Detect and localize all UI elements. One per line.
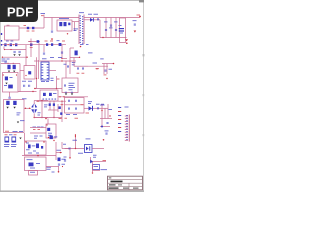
red dot right col [101,110,102,111]
node dots Q2 [48,137,49,138]
node dots y88.5 [34,88,35,89]
red marks filter sides [61,103,64,106]
TL431 U4 symbol [90,160,93,164]
right border tick 1 [143,54,145,56]
junction dot x102 y126 [101,126,103,128]
ground right of cap bank [125,39,128,41]
capacitor C12 [5,61,7,63]
wire y152.5 short [56,152,62,154]
wire bridge bottom [33,114,35,118]
varistor RV1 body [32,27,34,29]
blob in small box [47,128,50,131]
connector net labels column [118,107,121,132]
cluster x32-44 y126-133 [33,126,37,129]
wire y127.5 x30-46 [30,127,46,129]
vertical x58 [57,104,59,112]
capacitor C5 [97,18,99,20]
blob x48-52 y103-107 [49,103,51,106]
resistor R1 [59,22,62,26]
blob in box A [28,71,31,74]
wire filter to Q1 [84,107,92,109]
labels x38-40 y112-116 [38,111,41,114]
component row y43-47 pair 1 [4,43,6,46]
net endpoint marker top-right [139,16,141,18]
node dots above C14 C15 [7,63,8,64]
bus blob L2 [59,43,62,46]
label y150 [57,149,62,152]
wire drop x74 [74,22,76,31]
vertical x105 [104,108,106,118]
vertical x70 below rail [69,149,71,158]
wire mid filter [65,104,85,106]
cluster x56-66 y156-170 [58,158,61,162]
labels above y88.5 wire [51,77,54,80]
vertical x38.5 y60-79 [38,60,40,79]
labels right of Q1 [96,103,100,106]
bus blob R4 [51,43,53,46]
label cluster y58-64 [2,58,6,61]
label LF1 [17,112,21,115]
page right border [143,0,145,191]
wire y91.5 x18-36 [18,91,37,93]
vertical x54 [53,101,55,117]
IC U3 in standby lower [27,158,33,161]
bus blob R3 [46,43,48,46]
small box x46-56 y124-138 [46,124,56,138]
component row pair 2 [10,43,12,46]
labels below U1 [41,80,45,83]
title block row line 2 [108,182,143,184]
relay K1 contact block [5,137,10,143]
standby box upper [25,141,47,155]
red mark right of PC1 row [103,139,105,141]
transformer T1 [79,15,84,45]
capacitor C20 [75,100,77,102]
label right of BD1 [44,104,48,107]
capacitor C18 [104,70,106,72]
labels around bus blob [29,40,32,43]
wire TL431 bottom [93,170,101,172]
cluster in box upper [5,77,8,81]
fuse wire y28 [19,27,44,29]
node dots y117.5 [41,117,42,118]
blue mark x52 y172 [52,171,55,174]
red mark on rail right [96,67,100,70]
right column box A [24,66,35,80]
vertical x39 down [38,43,40,60]
labels near y153 [28,152,32,155]
label +B net [93,62,98,65]
page corner top-right [139,0,144,2]
capacitor CX1 [37,40,40,43]
label below left [20,119,25,122]
vertical x31 down [30,39,32,58]
wire rail y61 [34,60,76,62]
title block row line 3 [108,185,143,187]
labels around fuse [24,24,27,27]
node dot right col [109,115,110,116]
vertical x62 y44-58 [61,45,63,58]
vertical x102 [101,104,103,127]
wire y70.5 x20-24 [20,70,24,72]
wire y126.5 [100,126,110,128]
node dot bridge top [41,100,42,101]
extra cluster parts x62-68 [64,156,67,159]
label right of T1 bottom [80,43,84,46]
ground dot below T1 [80,46,82,48]
node dot x46 y118.5 [45,118,47,120]
label C10 [133,19,137,22]
red marks row y118 right [59,117,62,120]
label U2 [4,84,7,87]
node dot rail [102,37,103,38]
labels D2 C5 [88,13,92,16]
vertical x44 y44-52 [43,45,45,52]
label x73 y140 [73,139,78,142]
labels below relays [4,143,10,146]
vertical x20 y64-92 [19,64,21,93]
vertical x104 [103,64,105,75]
capacitor CY2 [13,101,16,105]
marks in small box [48,132,52,135]
vertical x56 y142-160 [55,142,57,160]
node dots on bus [8,44,9,45]
title block vertical divider [128,183,130,190]
capacitor C21 [68,108,70,110]
component row pair 3 [15,43,17,46]
ground CY1 [6,107,8,109]
vertical x42 AC [41,101,43,118]
cluster x63-70 y64-70 [67,65,69,67]
ground below C14 [8,71,10,73]
snubber box [57,20,72,31]
wire y118.5 [100,118,112,120]
blob x52-56 y103-107 [53,103,55,106]
label BD1 [22,97,27,100]
vertical x70 y61-74 [69,61,71,75]
label in feedback box [53,92,57,95]
capacitor C16 [9,97,11,99]
right border tick 2 [143,94,145,96]
diode D1 [68,23,70,26]
node dot y152 [60,152,62,154]
label x78 y153 [78,152,83,155]
wire y57.2 [2,56,28,58]
node dot x58 bottom [58,171,60,173]
feedback blob 1 [43,93,46,96]
TL431 detail box [93,165,100,170]
IC U2 body in box [8,85,13,89]
node dots y101 [37,101,38,102]
vertical x36 y57-79 [36,57,38,88]
transistor Q2 cluster [50,136,53,140]
wire bridge top [34,100,48,102]
snubber box 2 x62-78 y78-92.5 [62,78,78,93]
wire AC to bridge [24,107,31,109]
bus wire y44.7 [2,44,66,46]
ground below C4 [51,39,53,41]
vertical x107 [106,64,108,75]
title block title text [111,181,123,183]
wire y57.5 x70-80 [70,57,80,59]
label above PC1 [86,138,91,141]
label right of U3 [47,166,52,169]
node dot RM [113,63,115,65]
input filter box L1 [5,26,20,40]
extra parts standby upper [41,146,43,149]
ground below box2 left [65,93,67,95]
wire y41.5 stub [28,41,40,43]
MOSFET Q3 body [75,51,78,56]
ground CY4 [18,54,20,56]
left edge marks [1,33,2,35]
label L1 top [7,24,10,27]
capacitor C19 [68,100,70,102]
capacitor C4 [51,31,53,33]
wire y96.8 x58-88 [58,96,88,98]
top rail right of transformer [84,17,140,19]
connector CN1 [125,115,130,142]
node dot x75 [75,148,76,149]
feedback box x40-58 y90-101 [40,90,58,101]
electrolytic box C9 [120,18,126,43]
vertical x56 y76-88 [56,76,58,89]
bridge rectifier BD1 [31,104,37,114]
vertical x74 y58-66 [73,58,75,67]
node dot y91.5 [32,91,33,92]
transistor Q1 [89,106,93,110]
labels cap bank [104,21,108,24]
output rail bottom [100,37,127,39]
capacitor C10 [134,24,136,26]
node dot y61 [61,60,62,61]
wire y88.5 x34-62 [34,88,62,90]
node dot y155 [37,155,39,157]
labels above bus right [45,40,48,43]
opto rail wire [65,148,85,150]
wire stub x44 [43,15,45,29]
node dots AC [25,108,26,109]
red mark RM [104,74,107,77]
caps cluster x22-31 y83-89 [23,85,25,87]
blob x58-62 y106-110 [58,106,60,109]
label RM1 [100,58,104,61]
resistor R2 [64,22,67,26]
labels x34-44 y135-140 [34,135,38,138]
stub above TL431 [90,157,92,162]
optocoupler PC1 [85,145,93,153]
wire drop x52 [51,18,53,31]
text lines in box2 [69,82,75,85]
labels TL431 top [93,154,97,157]
wire y58.5 x62-66 [62,58,67,60]
labels above relays [5,133,8,136]
capacitor C6 [105,29,107,31]
capacitor C9 plates [119,28,124,29]
svg-text:PDF: PDF [7,4,33,19]
cluster x60-64 y50-56 [61,52,63,54]
secondary wire y19.8 [84,19,100,21]
label +B2 net [88,52,93,55]
labels right of U1 y57 [50,56,54,59]
section box left x2-18 [3,73,19,93]
standby box lower [25,157,47,171]
ground LF1 [17,122,19,124]
label +5V [101,168,108,171]
wire y66.2 x74-86 [74,65,88,67]
capacitor CY1 [6,101,9,105]
capacitor C23 on rail [69,147,71,149]
blue marks above grounds [65,91,67,94]
ground in box [5,83,7,85]
top rail net AC-L [44,17,79,19]
capacitor C7 [110,25,112,27]
labels right col [22,80,26,83]
vertical x24 bottom [24,133,26,141]
title block frame [108,176,143,190]
wire PC1 right [92,148,104,150]
vertical x26 y45-66 [25,45,27,66]
red mark below Q1 [86,112,90,115]
label x63 y144 [63,143,66,146]
transformer bottom stub wires [70,47,74,49]
wire TL431 rail [90,161,106,163]
ground CY3 [13,54,15,56]
PDF badge [0,0,38,22]
label near rail start [41,12,46,15]
node dots y49.5 [4,49,5,50]
page left border [0,0,1,191]
page bottom border [0,190,144,192]
electrolytic C15 body [13,65,16,69]
vertical x50 [49,101,51,110]
electrolytic C14 body [7,65,10,69]
capacitor C22 [75,108,77,110]
AC input box [4,100,25,133]
labels AC bottom [5,130,9,133]
blob x60-64 y112-116 [60,112,62,115]
fuse F1 body [27,27,29,29]
vertical x48 y118-124 [47,119,49,125]
capacitor in box2 [64,84,66,86]
node dot in box A [25,75,26,76]
node dot x36 y78 [36,78,37,79]
vertical x75 above rail [75,137,77,149]
vertical x62 y142-152 [61,142,63,149]
node dots y57.2 [2,57,3,58]
capacitor CY4 [19,51,21,53]
dashes in standby lower [36,162,40,165]
ground below box2 right [71,93,73,95]
node dot bridge bottom [34,117,35,118]
components standby upper [28,145,31,149]
secondary caps pair CP1 [77,67,79,69]
label in small box 2 [30,171,35,174]
ground below C10 [134,31,137,33]
U1 pins [42,64,49,79]
node dot below C9 [126,42,128,44]
title block small text row 2 [109,187,119,188]
wire y110 x48-58 [48,109,58,111]
cluster right col caps [106,122,108,124]
title block small text row 1 [109,184,116,185]
diode D2 [90,18,93,22]
vertical x92 TL431 [92,162,94,172]
node dot x70 bottom [69,157,71,159]
red dash x75 y134 [75,134,76,137]
wire y148.5 to opto [62,148,70,150]
label above snubber [59,17,69,20]
wire y63.5 x1-20 [1,63,20,65]
wire drop x100 [99,20,101,38]
page top border [0,0,144,2]
label x72 y62-66 [72,61,76,64]
capacitor C4b [43,53,45,55]
ground below C15 [13,71,15,73]
label Q1 [88,100,92,103]
label T1 [79,11,84,14]
node dots y96.8 [59,96,60,97]
node dot RM bottom [106,78,107,79]
capacitor C24 [97,107,99,109]
wire rail y66.2 right [88,65,108,67]
ground CY2 [13,107,15,109]
node dots standby [25,141,26,142]
node dots box corners [3,74,4,75]
wire RM y63.5 [102,63,114,65]
ground right of relays [19,138,21,140]
wire y166.5 x46-58 [46,166,59,168]
wire y155.5 [22,155,56,157]
capacitor CY3 [14,51,16,53]
vertical x4 y47-49 [3,47,5,50]
node dot small box [46,124,47,125]
labels above row [6,40,9,43]
vertical x66 y61-78 [65,61,67,79]
wire drop x116 [115,18,117,38]
vertical x108 [107,104,109,119]
wire y133 x30-46 [30,132,46,134]
vertical x62 [61,101,63,122]
vertical x58 y166-171 [58,166,60,172]
labels below filter [66,113,70,116]
relay K2 contact block [12,137,17,143]
capacitor C8 [115,29,117,31]
feedback blob 2 [49,93,52,96]
label RM2 [109,68,113,71]
small box x28 y170 [29,171,38,176]
node dot Q3 [79,57,80,58]
labels right of snubber [74,28,79,31]
wire Q1 right [93,107,108,109]
label above U1 [42,57,47,60]
label CN1 [125,106,129,109]
wire y117.5 x34-62 [34,117,62,119]
wire below box x9.5 [9,92,11,97]
wire y70.5 x49-56 [49,70,56,72]
node dot snubber [67,33,68,34]
pin dashes bottom of feedback box [43,98,57,101]
wire y101 x36-66 [36,100,66,102]
wire drop x106 [105,18,107,38]
output filter box [65,98,85,114]
right border tick 3 [143,134,145,136]
varistor blob on bus [30,43,32,46]
PWM IC U1 box [41,62,49,80]
red mark TL431 [103,159,107,162]
red dot TL431 bottom [92,172,93,173]
wire snubber to transformer [72,21,79,23]
